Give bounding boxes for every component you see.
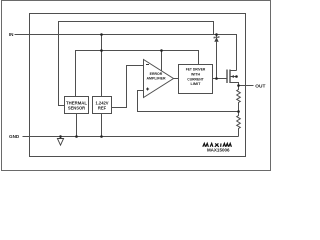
Q1 source stub to IN	[230, 70, 237, 72]
node: feedback tap	[237, 110, 240, 113]
node: source/body tie	[235, 75, 238, 78]
wire: internal supply rail	[76, 51, 199, 97]
svg-text:AMPLIFIER: AMPLIFIER	[147, 77, 166, 81]
thermal sensor box	[65, 97, 89, 114]
transistor Q1 channel bar	[229, 70, 231, 84]
MAXIM logo	[203, 143, 232, 146]
wire: REF to GND	[101, 114, 103, 137]
svg-text:SENSOR: SENSOR	[68, 105, 85, 110]
svg-text:OUT: OUT	[255, 83, 265, 89]
op-amp minus input mark	[146, 64, 149, 66]
wire: GND rail	[23, 136, 239, 138]
transistor Q1 pass FET gate bar	[226, 70, 228, 84]
figure border frame	[2, 1, 271, 171]
zener diode D1 anode triangle	[214, 37, 218, 41]
1.242V REF box	[93, 97, 112, 114]
wire: feedback tap to error amp non-inverting input	[138, 91, 239, 112]
node: OUT node	[237, 84, 240, 87]
node: REF/GND junction	[100, 135, 103, 138]
svg-text:GND: GND	[9, 134, 20, 139]
Q1 drain stub to OUT	[230, 83, 239, 86]
wire: thermal sensor to GND	[76, 114, 78, 137]
op-amp U2 error amplifier triangle	[144, 60, 174, 98]
wire: OUT line	[239, 85, 254, 87]
wire: error amp supply stub	[161, 51, 163, 71]
Q1 body stub	[230, 76, 237, 78]
ground pin arrow head	[57, 139, 63, 146]
FET driver box	[179, 65, 213, 94]
svg-text:REF: REF	[98, 105, 107, 110]
svg-text:ERROR: ERROR	[150, 72, 163, 76]
IC outline box U1 MAX15006	[30, 14, 246, 157]
node: supply rail/REF crossing	[100, 49, 103, 52]
node: GND arrow junction	[59, 135, 62, 138]
svg-text:MAX15006: MAX15006	[207, 148, 230, 153]
zener diode D1 cathode bar	[214, 36, 219, 38]
wire: REF output to error amp inverting input	[112, 66, 144, 108]
node: gate/zener junction	[215, 77, 218, 80]
wire: gate drive line	[213, 78, 227, 80]
junction dots	[59, 33, 240, 138]
resistor R2 lower feedback	[237, 112, 241, 137]
wire: error amp output to FET driver	[174, 78, 179, 80]
zener diode D1 cathode lead	[216, 35, 218, 38]
wire: IN-to-thermal-sensor top loop	[59, 22, 214, 106]
wire: vertical IN to 1.242V REF top	[101, 35, 103, 97]
svg-text:LIMIT: LIMIT	[191, 81, 201, 86]
op-amp plus input mark	[146, 88, 149, 91]
zener diode D1 anode lead	[216, 42, 218, 79]
node: IN/zener junction	[215, 33, 218, 36]
node: thermal/GND junction	[75, 135, 78, 138]
Q1 body arrow	[231, 75, 235, 78]
resistor R1 upper feedback	[237, 86, 241, 112]
wire: IN input rail	[15, 35, 237, 71]
node: supply rail/error amp	[160, 49, 163, 52]
ground pin arrow stub	[60, 137, 62, 139]
node: IN/REF junction	[100, 33, 103, 36]
svg-text:IN: IN	[9, 32, 14, 37]
